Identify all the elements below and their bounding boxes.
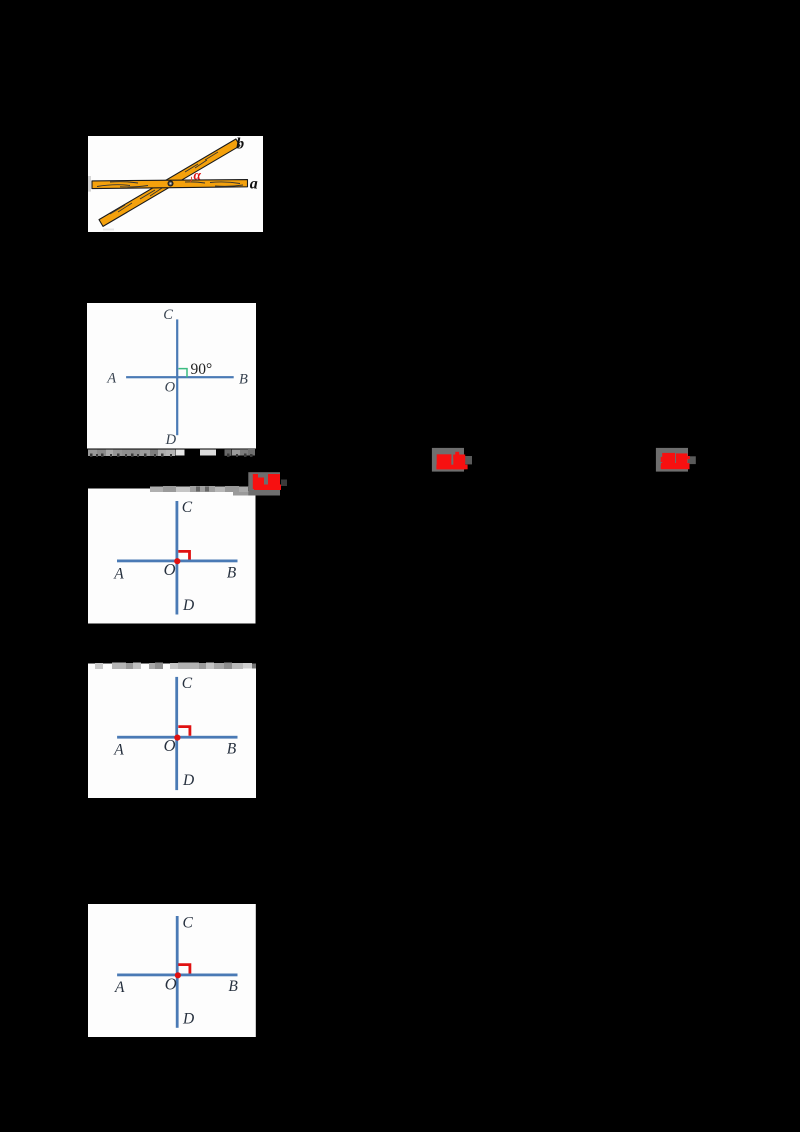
blurred text fragments at top	[150, 486, 256, 496]
figure 1: wooden sticks	[88, 136, 263, 232]
svg-text:D: D	[182, 772, 194, 789]
white panel	[88, 664, 256, 799]
line CD vertical	[175, 677, 178, 790]
figure 4: cross with red right angle	[88, 660, 256, 801]
white panel	[88, 489, 256, 624]
figure 3: cross with red right angle	[88, 486, 256, 625]
red dot at O	[174, 735, 180, 741]
svg-text:O: O	[164, 560, 176, 579]
svg-text:B: B	[227, 740, 237, 757]
red right-angle mark	[178, 965, 190, 974]
angle arc (red)	[190, 177, 191, 182]
figure 5: cross with red right angle	[88, 902, 256, 1038]
svg-text:O: O	[165, 379, 176, 395]
red highlight blob 1 (mid)	[428, 444, 476, 476]
svg-text:B: B	[227, 564, 237, 581]
pin at crossing	[168, 181, 173, 186]
svg-text:C: C	[163, 307, 173, 323]
figure 2: cross with 90 degrees	[87, 303, 256, 460]
red highlight blob 2 (right)	[652, 444, 700, 476]
svg-text:C: C	[182, 675, 193, 692]
stick a (horizontal)	[92, 180, 248, 189]
stick b (diagonal)	[99, 139, 240, 226]
line AB horizontal	[117, 560, 238, 563]
red dot at O	[174, 558, 180, 564]
white panel	[87, 303, 256, 449]
gray artifact near bottom	[103, 229, 114, 231]
svg-text:A: A	[106, 370, 116, 386]
right-angle square (green)	[179, 369, 188, 378]
svg-text:90°: 90°	[191, 361, 213, 378]
line AB horizontal	[117, 736, 237, 739]
line CD vertical	[176, 916, 179, 1028]
svg-text:D: D	[165, 432, 177, 448]
svg-text:A: A	[113, 742, 124, 759]
white panel	[88, 904, 256, 1037]
red right-angle mark	[178, 551, 189, 559]
blurred text fragments at top	[95, 663, 256, 670]
svg-text:C: C	[183, 915, 194, 932]
svg-text:b: b	[236, 136, 244, 153]
line CD vertical	[176, 501, 179, 615]
line AB horizontal	[117, 974, 237, 977]
svg-text:O: O	[164, 736, 176, 755]
red highlight blob 3 (lower)	[244, 466, 292, 500]
svg-text:O: O	[165, 975, 177, 994]
blurred text row under fig2	[88, 449, 256, 459]
svg-text:A: A	[114, 979, 125, 996]
red dot at O	[175, 972, 181, 978]
svg-text:a: a	[250, 175, 258, 192]
svg-text:D: D	[182, 597, 194, 614]
line CD vertical	[176, 319, 178, 435]
gray artifact at left edge	[88, 176, 91, 192]
svg-text:A: A	[113, 566, 124, 583]
svg-text:D: D	[182, 1010, 194, 1027]
svg-text:C: C	[182, 499, 193, 516]
white panel	[88, 136, 263, 232]
line AB horizontal	[126, 376, 234, 378]
svg-text:B: B	[239, 371, 248, 387]
svg-text:B: B	[228, 978, 238, 995]
svg-text:α: α	[194, 168, 202, 183]
red right-angle mark	[178, 727, 190, 736]
